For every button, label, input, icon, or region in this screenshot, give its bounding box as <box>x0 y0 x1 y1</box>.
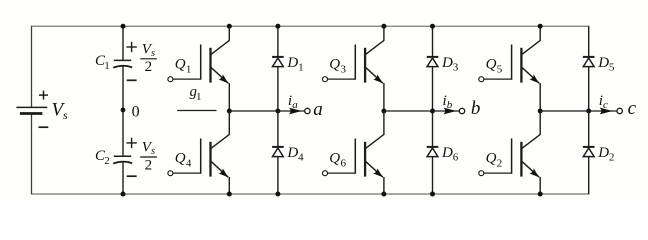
svg-text:4: 4 <box>298 152 304 164</box>
svg-text:2: 2 <box>104 155 110 167</box>
label C2 <box>95 148 110 167</box>
junction dot top rail / Q3 leg <box>381 24 386 29</box>
svg-text:1: 1 <box>104 60 110 72</box>
diode D5 (upper freewheel) <box>583 55 615 74</box>
wire phase a output (leg to terminal) <box>229 110 304 112</box>
junction dot top rail / cap leg <box>121 24 126 29</box>
dc source Vs (battery) <box>16 91 48 128</box>
wire collector Q3 (top rail to transistor) <box>383 26 385 40</box>
transistor Q5 (IGBT upper) <box>479 40 541 85</box>
svg-text:6: 6 <box>453 152 459 164</box>
wire phase c output (leg to terminal) <box>540 110 617 112</box>
terminal b (open circle) <box>459 98 480 119</box>
svg-text:D: D <box>597 55 609 71</box>
junction dot phase b / diode leg <box>430 109 435 114</box>
junction dot bottom rail / Q6 leg <box>381 192 386 197</box>
svg-text:3: 3 <box>453 62 459 74</box>
svg-text:s: s <box>63 108 68 122</box>
wire emitter Q6 (transistor to bottom rail) <box>383 177 385 194</box>
diode D6 (lower freewheel) <box>427 145 459 164</box>
svg-text:1: 1 <box>298 62 304 74</box>
transistor Q3 (IGBT upper) <box>323 40 385 85</box>
svg-text:2: 2 <box>145 59 153 75</box>
junction dot top rail / Q5 leg <box>538 24 543 29</box>
svg-text:Q: Q <box>175 57 186 73</box>
svg-text:c: c <box>603 99 608 111</box>
node 0 <box>121 103 140 120</box>
svg-text:D: D <box>441 55 453 71</box>
wire emitter Q1 (transistor to phase a node) <box>228 83 230 111</box>
svg-text:Q: Q <box>175 151 186 167</box>
wire collector Q2 (phase c node to transistor) <box>539 111 541 135</box>
junction dot phase a / transistor leg <box>227 109 232 114</box>
diode D2 (lower freewheel) <box>583 145 615 164</box>
junction dot top rail / D3 leg <box>430 24 435 29</box>
current arrow i_c <box>599 93 613 115</box>
value Vs/2 (lower) <box>140 139 157 173</box>
svg-text:D: D <box>441 145 453 161</box>
wire anode D4 (diode to bottom rail) <box>277 157 279 194</box>
gate signal g1 underline <box>177 110 216 112</box>
junction dot bottom rail / D4 leg <box>275 192 280 197</box>
wire left edge upper (top rail to Vs +) <box>31 26 33 107</box>
junction dot bottom rail / D6 leg <box>430 192 435 197</box>
svg-text:a: a <box>292 99 298 111</box>
svg-text:1: 1 <box>186 63 192 75</box>
svg-text:3: 3 <box>341 63 347 75</box>
svg-text:Q: Q <box>486 57 497 73</box>
wire anode D6 (diode to bottom rail) <box>432 157 434 194</box>
transistor Q2 (IGBT lower) <box>479 134 541 179</box>
wire cathode D5 (top rail to diode) <box>588 26 590 57</box>
wire anode D5 (diode to phase c node) <box>588 67 590 111</box>
svg-text:D: D <box>286 145 298 161</box>
capacitor C1 <box>113 42 137 81</box>
transistor Q1 (IGBT upper) <box>168 40 230 85</box>
wire collector Q4 (phase a node to transistor) <box>228 111 230 135</box>
wire emitter Q3 (transistor to phase b node) <box>383 83 385 111</box>
wire cathode D1 (top rail to diode) <box>277 26 279 57</box>
label C1 <box>95 53 110 72</box>
svg-text:b: b <box>447 99 453 111</box>
wire phase b output (leg to terminal) <box>384 110 459 112</box>
terminal c (open circle) <box>617 98 637 119</box>
junction dot bottom rail / Q4 leg <box>227 192 232 197</box>
current arrow i_a <box>288 93 302 115</box>
wire cap leg top (top rail to C1) <box>122 26 124 60</box>
value Vs/2 (upper) <box>140 42 157 76</box>
label g1 (gate signal) <box>190 84 202 103</box>
capacitor C2 <box>113 138 137 177</box>
svg-text:1: 1 <box>196 91 202 103</box>
wire cap mid lower (node 0 to C2) <box>122 110 124 156</box>
wire collector Q6 (phase b node to transistor) <box>383 111 385 135</box>
wire cathode D6 (phase b node to diode) <box>432 111 434 147</box>
transistor Q4 (IGBT lower) <box>168 134 230 179</box>
current arrow i_b <box>443 93 457 115</box>
terminal a (open circle) <box>305 99 323 120</box>
junction dot top rail / Q1 leg <box>227 24 232 29</box>
wire cathode D2 (phase c node to diode) <box>588 111 590 147</box>
junction dot bottom rail / cap leg <box>121 192 126 197</box>
wire cathode D3 (top rail to diode) <box>432 26 434 57</box>
svg-text:6: 6 <box>341 157 347 169</box>
wire cathode D4 (phase a node to diode) <box>277 111 279 147</box>
wire emitter Q4 (transistor to bottom rail) <box>228 177 230 194</box>
svg-text:D: D <box>286 55 298 71</box>
diode D1 (upper freewheel) <box>272 55 304 74</box>
wire top rail (+ bus) <box>31 25 590 27</box>
transistor Q6 (IGBT lower) <box>323 134 385 179</box>
junction dot phase b / transistor leg <box>381 109 386 114</box>
wire cap mid upper (C1 to node 0) <box>122 66 124 110</box>
svg-text:4: 4 <box>186 157 192 169</box>
svg-text:2: 2 <box>145 158 153 174</box>
diode D4 (lower freewheel) <box>272 145 304 164</box>
svg-text:a: a <box>313 99 323 120</box>
label Vs <box>52 100 69 122</box>
svg-text:5: 5 <box>609 62 615 74</box>
svg-text:Q: Q <box>329 151 340 167</box>
svg-text:Q: Q <box>486 151 497 167</box>
wire bottom rail (- bus) <box>31 193 590 195</box>
svg-text:Q: Q <box>329 57 340 73</box>
junction dot phase c / diode leg <box>586 109 591 114</box>
wire emitter Q5 (transistor to phase c node) <box>539 83 541 111</box>
wire anode D2 (diode to bottom rail) <box>588 157 590 194</box>
wire cap leg bottom (C2 to bottom rail) <box>122 162 124 194</box>
svg-text:2: 2 <box>609 152 615 164</box>
diode D3 (upper freewheel) <box>427 55 459 74</box>
svg-text:5: 5 <box>497 63 503 75</box>
wire collector Q5 (top rail to transistor) <box>539 26 541 40</box>
junction dot phase c / transistor leg <box>538 109 543 114</box>
svg-text:2: 2 <box>497 157 503 169</box>
junction dot phase a / diode leg <box>275 109 280 114</box>
junction dot bottom rail / Q2 leg <box>538 192 543 197</box>
wire anode D3 (diode to phase b node) <box>432 67 434 111</box>
svg-text:b: b <box>471 98 481 119</box>
svg-text:0: 0 <box>132 103 140 120</box>
svg-text:D: D <box>597 145 609 161</box>
svg-text:s: s <box>151 146 155 157</box>
junction dot top rail / D1 leg <box>275 24 280 29</box>
svg-text:s: s <box>151 48 155 59</box>
wire left edge lower (Vs - to bottom rail) <box>31 113 33 194</box>
wire anode D1 (diode to phase a node) <box>277 67 279 111</box>
wire emitter Q2 (transistor to bottom rail) <box>539 177 541 194</box>
svg-text:c: c <box>628 98 637 119</box>
wire collector Q1 (top rail to transistor) <box>228 26 230 40</box>
